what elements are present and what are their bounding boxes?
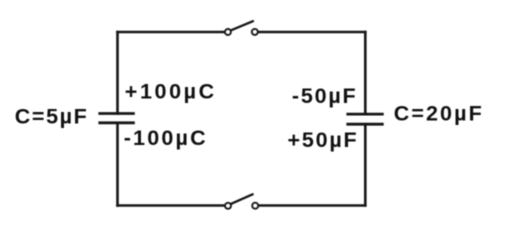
svg-text:C=20µF: C=20µF [394,102,484,126]
wire bottom-right segment [255,204,365,207]
capacitor C1 (left, C=5uF) [98,114,134,123]
switch S1 (top, open) [225,21,258,35]
svg-text:+100µC: +100µC [125,80,217,104]
wire right lower [364,124,367,205]
S1 lever [230,21,253,31]
switch S2 (bottom, open) [225,194,258,209]
S2 lever [230,194,253,204]
C1 top plate [98,112,134,115]
S1 left contact [225,29,231,35]
svg-text:-50µF: -50µF [292,84,358,108]
C2 top plate [346,113,383,116]
wire bottom-left segment [118,204,229,207]
S2 right contact [252,203,258,209]
svg-text:C=5µF: C=5µF [15,104,89,128]
wire right upper [364,32,367,114]
S1 right contact [252,29,258,35]
C1 bottom plate [98,121,134,124]
wire left lower [116,123,119,206]
wire top-right segment [255,31,365,34]
capacitor C2 (right, C=20uF) [346,114,383,124]
C2 bottom plate [346,123,383,126]
wire top-left segment [118,31,228,34]
wire left upper [116,32,119,114]
svg-text:-100µC: -100µC [124,126,208,150]
svg-text:+50µF: +50µF [288,128,359,152]
S2 left contact [225,203,231,209]
